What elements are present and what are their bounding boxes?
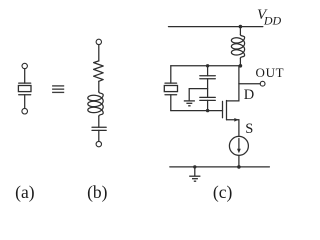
svg-text:DD: DD: [263, 13, 282, 27]
svg-text:(c): (c): [213, 182, 233, 202]
crystal plate top (a): [19, 82, 31, 84]
junction dot rail/I1: [237, 165, 241, 169]
junction dot gate node / C2: [206, 109, 209, 112]
capacitor C1 plate bottom: [200, 78, 216, 80]
crystal plate top (c): [165, 82, 177, 84]
drain lead: [227, 66, 239, 101]
svg-text:D: D: [244, 87, 254, 103]
crystal plate bottom (a): [19, 94, 31, 96]
capacitor CS plate bottom: [92, 129, 106, 131]
wire: [24, 69, 26, 83]
svg-text:S: S: [245, 121, 253, 137]
capacitor C2 plate top: [200, 96, 216, 98]
wire: [239, 58, 241, 66]
OUT wire: [239, 83, 260, 85]
node VDD junction: [239, 25, 243, 29]
terminal bottom (b): [96, 141, 101, 146]
wire: [98, 130, 100, 141]
equivalent model (part b): [88, 39, 106, 147]
source lead: [227, 119, 239, 121]
OUT terminal: [260, 81, 265, 86]
wire C1 top: [207, 66, 209, 76]
source arrow: [234, 118, 238, 122]
wire source down: [238, 120, 240, 137]
wire: [170, 66, 172, 83]
wire: [24, 95, 26, 109]
svg-text:OUT: OUT: [256, 65, 285, 80]
VDD rail: [169, 26, 263, 28]
junction dot rail/ground: [193, 165, 196, 168]
gate node wire: [171, 110, 223, 112]
current source arrow: [238, 139, 240, 151]
junction dot node X / C1: [206, 64, 209, 67]
transistor M1 gate bar: [222, 101, 224, 117]
svg-text:(b): (b): [87, 182, 108, 202]
inductor L1: [231, 35, 244, 59]
ground tap wire: [189, 89, 207, 101]
equivalence symbol: [52, 86, 64, 93]
resistor RS: [94, 61, 104, 81]
wire: [170, 95, 172, 111]
ground stem: [194, 167, 196, 176]
crystal plate bottom (c): [165, 94, 177, 96]
wire C2 bottom: [207, 100, 209, 110]
ground rail: [170, 166, 270, 168]
wire: [98, 45, 100, 61]
wire: [98, 116, 100, 127]
capacitor CS plate top: [92, 126, 106, 128]
wire: [238, 155, 240, 167]
crystal body X1 (c): [164, 86, 177, 92]
current source I1: [229, 136, 248, 155]
node X wire: [171, 65, 241, 67]
wire: [98, 81, 100, 91]
terminal top (a): [22, 63, 27, 68]
ground symbol 2: [189, 176, 200, 181]
transistor M1 channel bar: [226, 101, 228, 120]
capacitor C1 plate top: [200, 75, 216, 77]
crystal body (a): [18, 86, 31, 92]
terminal top (b): [96, 39, 101, 44]
wire between C1 and C2: [207, 79, 209, 98]
capacitor C2 plate bottom: [200, 99, 216, 101]
inductor LS: [88, 92, 103, 117]
oscillator circuit (part c): [164, 25, 269, 181]
crystal X1 (part a): [18, 63, 31, 114]
wire: [239, 27, 241, 35]
ground symbol 1: [184, 101, 195, 106]
junction dot node X / L1: [239, 64, 243, 68]
terminal bottom (a): [22, 108, 28, 114]
svg-text:(a): (a): [15, 182, 35, 202]
